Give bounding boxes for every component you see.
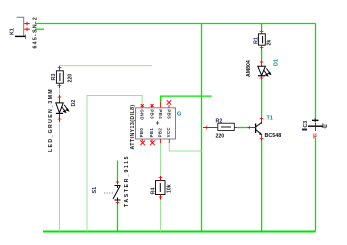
- svg-text:LED_GRUEN_3MM: LED_GRUEN_3MM: [48, 88, 54, 152]
- svg-text:R1: R1: [253, 37, 259, 44]
- svg-text:D2: D2: [71, 100, 77, 107]
- svg-text:D1: D1: [274, 59, 280, 66]
- svg-text:10k: 10k: [167, 184, 173, 193]
- svg-text:K1: K1: [10, 28, 16, 35]
- svg-text:TASTER_9115: TASTER_9115: [124, 155, 130, 207]
- svg-text:T1: T1: [267, 116, 273, 122]
- svg-text:G: G: [177, 112, 181, 118]
- svg-text:µ: µ: [313, 132, 317, 139]
- svg-text:BC548: BC548: [265, 133, 282, 139]
- svg-text:PB5: PB5: [166, 109, 171, 119]
- svg-text:1µ: 1µ: [322, 124, 328, 130]
- svg-text:ATTINY13(DIL8): ATTINY13(DIL8): [130, 104, 136, 149]
- svg-text:R4: R4: [151, 188, 157, 195]
- svg-text:VCC: VCC: [166, 127, 171, 138]
- svg-text:R3: R3: [51, 74, 57, 81]
- svg-text:645-SN-2: 645-SN-2: [33, 16, 39, 49]
- svg-text:AM804: AM804: [246, 60, 252, 77]
- svg-text:PB2: PB2: [157, 128, 162, 138]
- svg-text:PB4: PB4: [158, 109, 163, 119]
- svg-text:S1: S1: [92, 187, 98, 194]
- svg-text:2k: 2k: [267, 40, 273, 46]
- svg-text:220: 220: [68, 74, 74, 83]
- svg-text:C3: C3: [303, 121, 309, 128]
- svg-text:PB3: PB3: [149, 109, 154, 119]
- svg-text:220: 220: [216, 133, 225, 139]
- svg-text:GND: GND: [140, 109, 145, 120]
- svg-text:R2: R2: [216, 118, 223, 124]
- svg-text:PB1: PB1: [149, 128, 154, 138]
- svg-text:PB0: PB0: [139, 128, 144, 138]
